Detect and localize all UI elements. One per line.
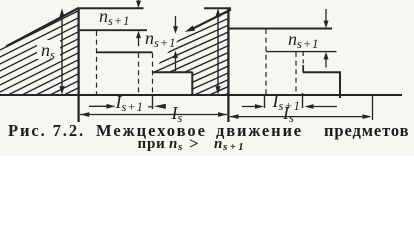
dimension I_s+1 (right) [242,106,256,108]
step edge x=304 (solid corner) [302,65,304,72]
label I_s left [172,104,184,122]
dimension arrows n_s+1 (x=175) [175,16,177,27]
dashed drop line x=266 [265,29,267,95]
tick x=302.5 [302,93,304,108]
dimension I_s (right) [230,116,370,118]
top edge y=8 of second bar [204,7,231,9]
right edge of bar n_s / extension line [77,8,79,122]
step line y=72 [152,71,193,73]
dashed drop line x=296 [295,52,297,95]
label n_s+1 top [99,7,130,25]
dimension arrow n_s [61,11,63,92]
extension line x=372 [372,95,374,120]
label box n_s+1 (mid) [142,33,173,51]
right edge x=228 / extension line [227,8,229,122]
label n_s+1 mid [145,29,176,47]
dimension arrows n_s+1 (x=138) [138,0,140,3]
label n_s+1 right [288,30,319,48]
step line y=51 [266,51,337,53]
tick x=152.5 below baseline [152,95,154,109]
top slanted edge of bar n_s [6,8,79,47]
step line y=67 [303,71,341,73]
step line y=52 [96,51,153,53]
hatched batch bar n_s (operation s) [0,0,85,151]
label I_s right [283,104,295,122]
dashed drop line x=96 [96,31,98,95]
dashed drop line x=138 [138,53,140,95]
dashed drop line x=152 [152,53,154,95]
tick x=264.5 [264,94,266,108]
step line y=30 [78,29,147,31]
step right edge x=192 [191,72,193,95]
step line y=8 (first transfer level) [78,7,144,9]
dimension I_s+1 (left) [89,105,107,107]
label n_s on bar [41,41,56,59]
label I_s+1 right [273,92,301,110]
hatched batch bar (second batch) [145,0,235,144]
caption line 1 [8,123,85,140]
dimension arrow height of second bar [217,11,219,92]
dimension arrows n_s+1 (right group) [325,9,327,22]
label background patch for n_s [37,40,60,59]
label I_s+1 left [116,93,144,111]
dimension I_s (left) [80,114,227,116]
step edge x=304 (dashed upper part) [302,52,304,65]
baseline (time axis) [0,94,402,96]
transfer arrow along top of second bar [190,10,231,31]
step edge x=339 [339,72,341,98]
caption line 2 [138,137,166,152]
step line y=28 (right group top) [228,28,332,30]
